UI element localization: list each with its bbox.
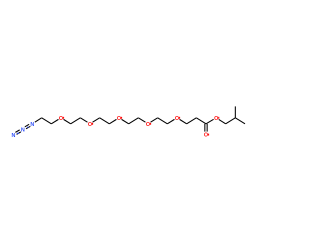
bond O4-C9 bbox=[151, 118, 158, 122]
atom label O22 bbox=[214, 116, 219, 122]
svg-text:N: N bbox=[30, 122, 34, 128]
N1=N2 azide double bond bbox=[15, 130, 20, 134]
bond C6-O3 bbox=[109, 119, 116, 123]
bond C14-C15 bbox=[226, 118, 236, 124]
atom label O5 bbox=[59, 116, 64, 122]
svg-text:O: O bbox=[146, 122, 150, 128]
atom label O11 bbox=[117, 116, 122, 122]
bond C9-C10 bbox=[158, 118, 168, 124]
bond N3-C1 bbox=[35, 118, 42, 122]
atom label N0 bbox=[11, 133, 15, 139]
minus charge on N0 bbox=[17, 133, 19, 134]
bond C4-O2 bbox=[80, 118, 87, 122]
atom label N1 bbox=[21, 127, 25, 133]
atom label O8 bbox=[88, 122, 93, 128]
svg-text:+: + bbox=[27, 126, 29, 130]
atom label N2 bbox=[30, 122, 34, 128]
svg-text:O: O bbox=[88, 122, 92, 128]
bond C15-C17 methyl bbox=[234, 106, 236, 117]
bond C13-O7 ester bbox=[206, 119, 214, 123]
svg-text:O: O bbox=[214, 116, 218, 122]
atom label O21 bbox=[204, 133, 209, 139]
bond C2-O1 bbox=[51, 119, 58, 123]
bond C3-C4 bbox=[71, 118, 81, 124]
bond O2-C5 bbox=[93, 118, 100, 122]
bond O1-C3 bbox=[64, 119, 71, 123]
svg-text:O: O bbox=[117, 116, 121, 122]
plus charge on N1 bbox=[27, 126, 29, 130]
bond C11-C12 bbox=[187, 118, 197, 124]
bond O7-C14 bbox=[219, 119, 226, 123]
bond C7-C8 bbox=[129, 118, 139, 124]
bond C12-C13 carbonyl bbox=[196, 118, 206, 124]
svg-text:O: O bbox=[175, 116, 179, 122]
N2=N3 azide double bond bbox=[25, 124, 30, 128]
C13=O6 carbonyl double bond bbox=[205, 124, 207, 132]
bond C15-C16 methyl bbox=[235, 118, 245, 124]
svg-text:O: O bbox=[59, 116, 63, 122]
atom label O17 bbox=[175, 116, 180, 122]
svg-text:N: N bbox=[21, 127, 25, 133]
svg-text:N: N bbox=[11, 133, 15, 139]
bond O3-C7 bbox=[122, 119, 129, 123]
bond C10-O5 bbox=[167, 119, 174, 123]
bond C5-C6 bbox=[100, 118, 110, 124]
atom label O14 bbox=[146, 122, 151, 128]
bond C8-O4 bbox=[138, 118, 145, 122]
bond O5-C11 bbox=[180, 119, 187, 123]
svg-text:O: O bbox=[204, 133, 208, 139]
bond C1-C2 bbox=[42, 118, 52, 124]
